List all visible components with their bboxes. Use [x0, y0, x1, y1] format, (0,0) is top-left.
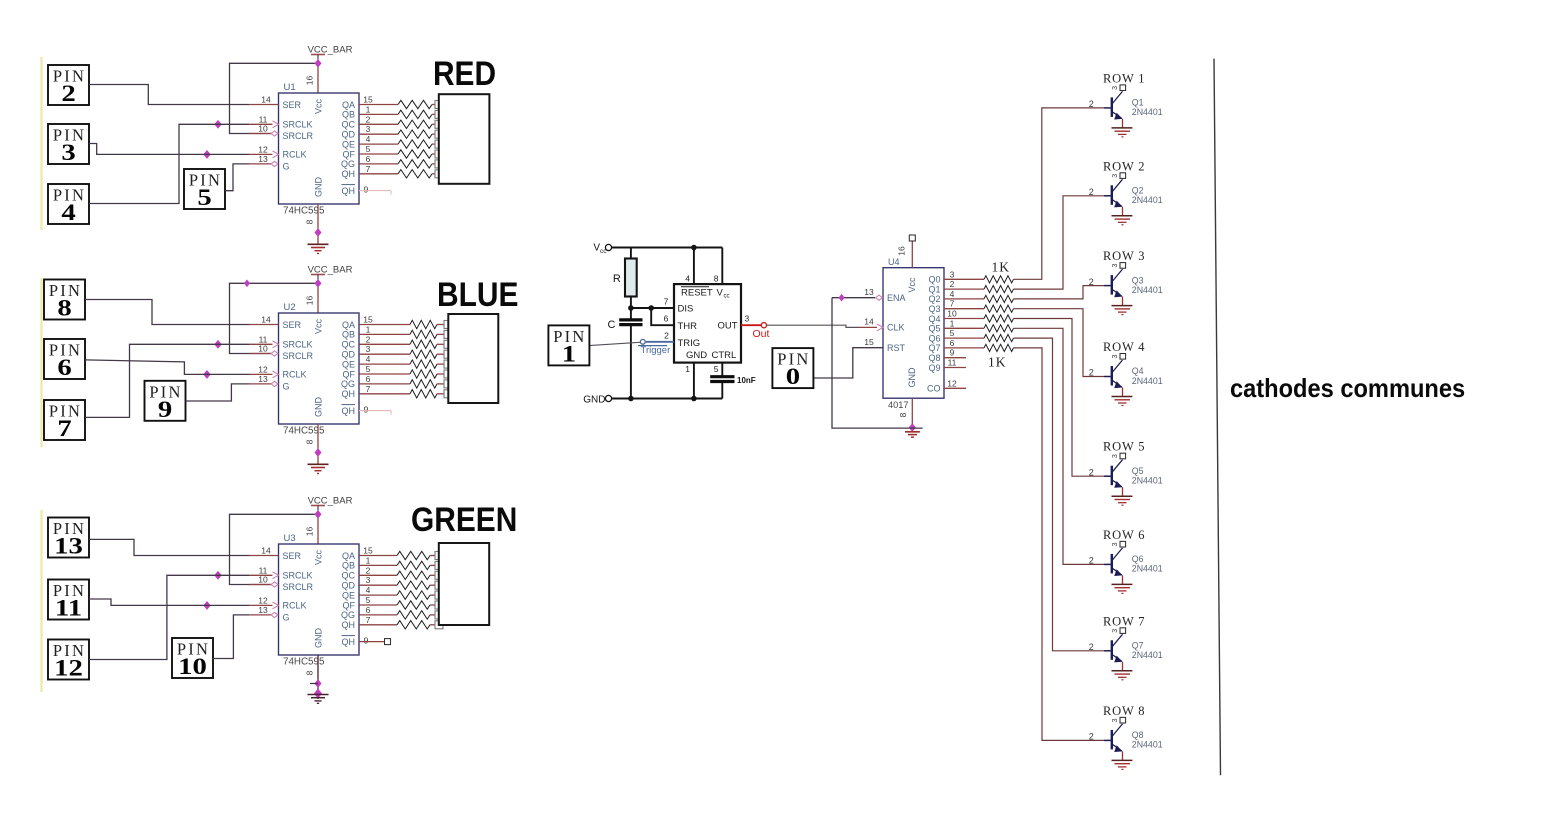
wire U2 QD (pin 3) to resistor	[359, 344, 410, 354]
wire U4 CLK stub pin 14	[858, 317, 883, 331]
wire PIN11 to U3 RCLK	[89, 599, 249, 605]
svg-text:QA: QA	[342, 100, 355, 110]
ground symbol below Q3	[1112, 306, 1133, 315]
resistor 1K on U4 Q4	[984, 315, 1014, 322]
svg-text:RST: RST	[887, 343, 906, 353]
wire U3 QD (pin 3) to resistor	[359, 575, 397, 585]
svg-text:12: 12	[258, 144, 268, 154]
series resistor on U1 QC	[398, 120, 436, 128]
series resistor on U1 QB	[398, 110, 436, 118]
transistor Q4 2N4401	[1089, 357, 1163, 389]
svg-text:3: 3	[1112, 629, 1119, 633]
ground symbol below Q6	[1112, 584, 1133, 593]
svg-text:10: 10	[258, 575, 268, 585]
junction VCC_BAR node	[315, 60, 321, 67]
terminal block PIN2	[48, 65, 89, 106]
ground symbol below Q8	[1112, 760, 1133, 769]
wire U3 QC (pin 2) to resistor	[359, 565, 397, 575]
svg-text:1: 1	[366, 324, 371, 334]
shift register IC U3 74HC595	[279, 533, 360, 668]
wire U4 Q3 (pin 7) to 1K resistor	[944, 299, 984, 309]
collector square terminal of Q4	[1112, 354, 1126, 360]
svg-text:QB: QB	[342, 330, 355, 340]
shift register IC U2 74HC595	[279, 302, 360, 437]
series resistor on U3 QE	[397, 591, 436, 599]
resistor 1K on U4 Q5	[984, 325, 1014, 332]
junction on U2 RCLK net	[204, 371, 210, 379]
svg-text:QH: QH	[342, 620, 356, 630]
connector pad U1 row 6	[435, 150, 443, 158]
svg-text:1: 1	[366, 104, 371, 114]
junction at U3 ground	[310, 680, 321, 687]
svg-text:QC: QC	[342, 571, 356, 581]
svg-text:SER: SER	[283, 551, 302, 561]
connector pad U3 row 3	[435, 571, 443, 579]
resistor 1K on U4 Q7	[984, 344, 1014, 351]
series resistor on U1 QA	[398, 100, 436, 108]
series resistor on U2 QD	[410, 350, 445, 358]
pin 9 QH-bar stub of U3	[359, 636, 391, 646]
svg-text:6: 6	[950, 338, 955, 348]
svg-text:QF: QF	[343, 149, 356, 159]
connector pad U2 row 5	[444, 360, 452, 368]
svg-text:2: 2	[1089, 732, 1094, 742]
svg-text:G: G	[283, 612, 290, 622]
connector pad U3 row 2	[435, 561, 443, 569]
svg-text:5: 5	[950, 328, 955, 338]
faint highlight line left of BLUE pin blocks	[40, 278, 42, 447]
connector pad U3 row 1	[435, 552, 443, 560]
svg-text:10: 10	[258, 344, 268, 354]
wire U1 QG (pin 6) to resistor	[359, 154, 398, 164]
ground symbol below Q1	[1112, 128, 1133, 137]
junction on U2 SRCLK net	[215, 341, 221, 349]
junction VCC_BAR node	[315, 511, 321, 518]
svg-text:GND: GND	[314, 177, 324, 198]
series resistor on U2 QF	[410, 370, 445, 378]
svg-text:Vcc: Vcc	[314, 99, 324, 115]
svg-text:74HC595: 74HC595	[283, 426, 325, 437]
svg-text:2N4401: 2N4401	[1132, 476, 1163, 486]
wire PIN0 to U4 RST pin 15	[813, 337, 883, 378]
svg-text:QD: QD	[342, 350, 356, 360]
wire U3 QE (pin 4) to resistor	[359, 585, 397, 595]
wire U4 Q4 (pin 10) to 1K resistor	[944, 309, 984, 319]
series resistor on U3 QA	[397, 551, 436, 559]
svg-text:ROW 6: ROW 6	[1103, 528, 1145, 542]
connector pad U2 row 6	[444, 370, 452, 378]
svg-text:8: 8	[305, 219, 315, 224]
pin 9 QH-bar stub of U2	[359, 405, 391, 415]
pin 12 RCLK stub of U1	[249, 144, 279, 157]
svg-text:16: 16	[305, 296, 315, 306]
svg-text:5: 5	[197, 185, 211, 211]
svg-text:3: 3	[366, 124, 371, 134]
series resistor on U2 QH	[410, 390, 445, 398]
terminal block PIN9	[145, 381, 186, 422]
svg-text:ROW 5: ROW 5	[1103, 440, 1145, 454]
svg-text:Q4: Q4	[1132, 366, 1144, 376]
svg-text:Q2: Q2	[928, 294, 940, 304]
pin 12 RCLK stub of U3	[249, 595, 279, 608]
wire Q5 emitter to ground	[1122, 487, 1124, 496]
svg-text:ROW 8: ROW 8	[1103, 704, 1145, 718]
wire 555 Vcc pin 8 to Vcc rail	[714, 248, 723, 285]
wire PIN10 to U3 G	[212, 615, 249, 659]
svg-text:OUT: OUT	[717, 321, 737, 332]
wire 1K Q5 to transistor Q6 base	[1014, 328, 1105, 564]
svg-text:cc: cc	[724, 294, 730, 300]
wire junction to DIS (pin 7)	[631, 297, 674, 309]
series resistor on U1 QD	[398, 130, 436, 138]
svg-text:Q7: Q7	[1132, 641, 1144, 651]
node Out (open circle)	[761, 323, 766, 328]
svg-text:GND: GND	[314, 628, 324, 649]
wire Q1 emitter to ground	[1122, 119, 1124, 128]
wire 1K Q4 to transistor Q5 base	[1014, 319, 1105, 477]
svg-text:QH: QH	[342, 406, 356, 416]
connector pad U3 row 5	[435, 591, 443, 599]
svg-text:3: 3	[745, 313, 750, 323]
wire DIS branch to THR (pin 6)	[651, 308, 674, 325]
series resistor on U3 QG	[397, 611, 436, 619]
wire U4 Q8 stub (pin 9)	[944, 348, 966, 358]
resistor 1K on U4 Q0	[984, 276, 1014, 283]
svg-text:RCLK: RCLK	[283, 370, 307, 380]
wire U2 QH (pin 7) to resistor	[359, 384, 410, 394]
connector pad U2 row 2	[444, 330, 452, 338]
svg-text:ROW 2: ROW 2	[1103, 159, 1145, 173]
svg-text:CLK: CLK	[887, 323, 905, 333]
series resistor on U1 QE	[398, 140, 436, 148]
svg-text:cathodes communes: cathodes communes	[1230, 375, 1465, 403]
square terminal above U4 pin 16	[909, 235, 915, 241]
svg-text:2: 2	[1089, 99, 1094, 109]
wire 1K Q3 to transistor Q4 base	[1014, 309, 1105, 377]
series resistor on U3 QF	[397, 601, 436, 609]
svg-text:2: 2	[1089, 277, 1094, 287]
power symbol VCC_BAR (U1 section)	[308, 45, 353, 64]
svg-text:12: 12	[947, 378, 957, 388]
svg-text:3: 3	[1112, 264, 1119, 268]
svg-text:QD: QD	[342, 581, 356, 591]
connector pad U1 row 8	[435, 170, 443, 178]
series resistor on U2 QG	[410, 380, 445, 388]
junction on U3 SRCLK net	[215, 572, 221, 580]
svg-text:QE: QE	[342, 359, 355, 369]
svg-text:9: 9	[950, 348, 955, 358]
wire U3 QB (pin 1) to resistor	[359, 555, 397, 565]
svg-text:GND: GND	[907, 367, 917, 388]
transistor Q8 2N4401	[1089, 720, 1163, 752]
wire U1 QE (pin 4) to resistor	[359, 134, 398, 144]
wire U4 Q9 stub (pin 11)	[944, 358, 966, 368]
svg-text:3: 3	[1112, 174, 1119, 178]
svg-text:5: 5	[714, 364, 719, 374]
svg-text:QB: QB	[342, 561, 355, 571]
wire 1K Q1 to transistor Q2 base	[1014, 196, 1105, 289]
wire U4 Q5 (pin 1) to 1K resistor	[944, 318, 984, 328]
LED connector header (RED column)	[439, 94, 490, 184]
resistor 1K on U4 Q3	[984, 305, 1014, 312]
ground symbol below Q5	[1112, 496, 1133, 505]
series resistor on U1 QH	[398, 170, 436, 178]
svg-text:RESET: RESET	[681, 288, 713, 299]
cathode bus line	[1214, 59, 1221, 776]
svg-text:Q0: Q0	[928, 275, 940, 285]
wire Q4 emitter to ground	[1122, 388, 1124, 397]
svg-text:QH: QH	[342, 637, 356, 647]
svg-text:4: 4	[685, 274, 690, 284]
terminal block PIN8	[44, 280, 85, 321]
wire VCC_BAR to U1 pin 16 (Vcc)	[317, 63, 319, 93]
svg-text:12: 12	[54, 655, 83, 681]
wire U2 QA (pin 15) to resistor	[359, 315, 410, 325]
ground terminal GND (555 section)	[583, 394, 611, 405]
svg-text:1: 1	[950, 318, 955, 328]
svg-text:SRCLK: SRCLK	[283, 120, 313, 130]
svg-text:GREEN: GREEN	[411, 500, 517, 538]
svg-text:RED: RED	[433, 54, 496, 92]
wire U1 QB (pin 1) to resistor	[359, 104, 398, 114]
svg-text:5: 5	[366, 364, 371, 374]
wire U4 pin 16 Vcc	[897, 242, 913, 268]
terminal block PIN1	[548, 325, 589, 366]
wire 1K Q2 to transistor Q3 base	[1014, 286, 1105, 299]
resistor R (timing)	[613, 248, 637, 309]
svg-text:3: 3	[1112, 454, 1119, 458]
node C to ground rail	[628, 396, 634, 402]
wire U3 QA (pin 15) to resistor	[359, 546, 397, 556]
connector pad U1 row 2	[435, 110, 443, 118]
wire U4 Q2 (pin 4) to 1K resistor	[944, 289, 984, 299]
svg-text:6: 6	[366, 154, 371, 164]
collector square terminal of Q8	[1112, 717, 1126, 723]
svg-text:2: 2	[366, 565, 371, 575]
wire U4 ENA pin 13 to ground rail	[832, 287, 906, 428]
svg-text:Q8: Q8	[1132, 730, 1144, 740]
svg-text:2: 2	[950, 279, 955, 289]
pin 11 SRCLK stub of U3	[249, 565, 279, 578]
svg-text:14: 14	[261, 546, 271, 556]
wire 1K Q0 to transistor Q1 base	[1014, 108, 1105, 279]
connector pad U3 row 7	[435, 611, 443, 619]
wire Q3 emitter to ground	[1122, 297, 1124, 306]
series resistor on U1 QG	[398, 160, 436, 168]
svg-text:11: 11	[948, 358, 957, 368]
wire PIN4 to U1 SRCLK	[89, 124, 249, 203]
svg-text:2N4401: 2N4401	[1132, 107, 1163, 117]
terminal block PIN13	[48, 518, 89, 559]
svg-text:8: 8	[898, 412, 908, 417]
svg-text:QB: QB	[342, 110, 355, 120]
svg-text:1K: 1K	[988, 355, 1007, 370]
svg-text:Q8: Q8	[928, 353, 940, 363]
connector pad U2 row 4	[444, 350, 452, 358]
svg-text:10nF: 10nF	[737, 376, 756, 385]
ground symbol below Q7	[1112, 671, 1133, 680]
svg-text:R: R	[613, 273, 621, 285]
LED connector header (GREEN column)	[439, 543, 489, 625]
connector pad U1 row 5	[435, 140, 443, 148]
wire U1 QD (pin 3) to resistor	[359, 124, 398, 134]
faint highlight line left of RED pin blocks	[40, 57, 42, 230]
svg-text:7: 7	[950, 299, 955, 309]
collector square terminal of Q7	[1112, 628, 1126, 634]
wire 1K Q7 to transistor Q8 base	[1014, 348, 1105, 741]
svg-text:CO: CO	[927, 384, 941, 394]
svg-text:6: 6	[366, 374, 371, 384]
svg-text:13: 13	[54, 533, 83, 559]
svg-text:2: 2	[1089, 642, 1094, 652]
svg-text:U2: U2	[284, 302, 296, 313]
svg-text:QF: QF	[343, 600, 356, 610]
svg-text:Vcc: Vcc	[314, 550, 324, 566]
wire VCC_BAR to U2 pin 16 (Vcc)	[317, 283, 319, 313]
collector square terminal of Q5	[1112, 453, 1126, 459]
svg-text:SER: SER	[283, 320, 302, 330]
connector pad U1 row 4	[435, 130, 443, 138]
pin 14 SER stub of U2	[249, 315, 279, 325]
junction tick on ENA net	[839, 295, 844, 301]
svg-text:10: 10	[178, 654, 207, 680]
node Trigger (open circle)	[640, 339, 645, 344]
svg-text:74HC595: 74HC595	[283, 206, 325, 217]
svg-text:8: 8	[305, 670, 315, 675]
series resistor on U1 QF	[398, 150, 436, 158]
svg-text:12: 12	[258, 364, 268, 374]
transistor Q6 2N4401	[1089, 544, 1163, 576]
wire U1 QA (pin 15) to resistor	[359, 95, 398, 105]
terminal block PIN12	[48, 640, 89, 681]
svg-text:QD: QD	[342, 130, 356, 140]
svg-text:10: 10	[947, 309, 957, 319]
svg-text:16: 16	[305, 527, 315, 537]
wire Q6 emitter to ground	[1122, 575, 1124, 584]
wire Q8 emitter to ground	[1122, 751, 1124, 760]
svg-text:SRCLR: SRCLR	[283, 351, 314, 361]
pin 8 GND stub of U2	[305, 424, 319, 464]
terminal block PIN3	[48, 124, 89, 165]
transistor Q7 2N4401	[1089, 631, 1163, 663]
svg-text:BLUE: BLUE	[437, 275, 518, 313]
collector square terminal of Q3	[1112, 263, 1126, 269]
resistor 1K on U4 Q6	[984, 335, 1014, 342]
svg-text:15: 15	[363, 95, 373, 105]
svg-text:GND: GND	[314, 397, 324, 418]
svg-text:Trigger: Trigger	[641, 345, 671, 356]
svg-text:Q2: Q2	[1132, 186, 1144, 196]
pin 13 G stub of U3	[249, 605, 278, 618]
power terminal Vcc (555 section)	[593, 243, 611, 256]
wire U2 QC (pin 2) to resistor	[359, 334, 410, 344]
svg-text:8: 8	[714, 274, 719, 284]
svg-text:7: 7	[366, 615, 371, 625]
connector pad U1 row 3	[435, 120, 443, 128]
svg-text:QH: QH	[342, 389, 356, 399]
junction at U2 ground	[315, 449, 321, 456]
junction on U1 SRCLK net	[215, 121, 221, 129]
wire PIN2 to U1 SER	[89, 85, 249, 105]
power symbol VCC_BAR (U2 section)	[308, 265, 353, 284]
ground symbol below U1	[308, 244, 329, 253]
connector pad U3 row 6	[435, 601, 443, 609]
capacitor 10nF on CTRL pin 5	[710, 363, 756, 399]
svg-text:3: 3	[1112, 718, 1119, 722]
svg-text:QG: QG	[341, 610, 355, 620]
transistor Q1 2N4401	[1089, 88, 1163, 120]
pin 10 SRCLR stub of U1	[249, 124, 278, 137]
terminal block PIN4	[48, 184, 89, 225]
pin 11 SRCLK stub of U1	[249, 114, 279, 127]
svg-text:QA: QA	[342, 320, 355, 330]
svg-text:QF: QF	[343, 369, 356, 379]
series resistor on U3 QD	[397, 581, 436, 589]
connector pad U1 row 1	[435, 101, 443, 109]
wire Q2 emitter to ground	[1122, 207, 1124, 216]
wire PIN8 to U2 SER	[85, 300, 249, 325]
wire 555 GND pin 1 to ground rail	[685, 363, 694, 399]
svg-text:Q9: Q9	[928, 363, 940, 373]
svg-text:4: 4	[950, 289, 955, 299]
svg-text:QE: QE	[342, 590, 355, 600]
ground symbol below Q2	[1112, 216, 1133, 225]
svg-text:2N4401: 2N4401	[1132, 650, 1163, 660]
pin 8 GND stub of U3	[305, 655, 319, 699]
svg-text:Out: Out	[753, 328, 770, 340]
svg-text:U4: U4	[888, 257, 900, 267]
pin 14 SER stub of U1	[249, 95, 279, 105]
svg-text:4: 4	[366, 354, 371, 364]
svg-text:Q6: Q6	[1132, 554, 1144, 564]
svg-text:QA: QA	[342, 551, 355, 561]
faint highlight line left of GREEN pin blocks	[40, 510, 42, 692]
wire U4 Q0 (pin 3) to 1K resistor	[944, 269, 984, 279]
svg-text:SRCLK: SRCLK	[283, 340, 313, 350]
svg-text:2N4401: 2N4401	[1132, 195, 1163, 205]
ground symbol below Q4	[1112, 397, 1133, 406]
transistor Q2 2N4401	[1089, 176, 1163, 208]
svg-text:9: 9	[364, 636, 369, 646]
svg-text:2: 2	[1089, 467, 1094, 477]
wire U1 QC (pin 2) to resistor	[359, 114, 398, 124]
terminal block PIN11	[48, 580, 89, 621]
svg-text:2: 2	[366, 114, 371, 124]
svg-text:2N4401: 2N4401	[1132, 564, 1163, 574]
svg-text:4: 4	[61, 200, 75, 226]
svg-text:8: 8	[305, 439, 315, 444]
svg-text:6: 6	[57, 355, 71, 381]
series resistor on U3 QH	[397, 621, 436, 629]
svg-text:0: 0	[786, 364, 800, 390]
wire U3 QH (pin 7) to resistor	[359, 615, 397, 625]
collector square terminal of Q1	[1112, 85, 1126, 91]
power symbol VCC_BAR (U3 section)	[308, 496, 353, 515]
junction at U4 ground	[909, 424, 915, 431]
svg-text:14: 14	[261, 315, 271, 325]
wire U3 QF (pin 5) to resistor	[359, 595, 397, 605]
connector pad U1 row 7	[435, 160, 443, 168]
svg-text:V: V	[717, 288, 724, 299]
svg-text:Q1: Q1	[928, 284, 940, 294]
svg-text:3: 3	[366, 575, 371, 585]
wire U1 QH (pin 7) to resistor	[359, 164, 398, 174]
wire VCC_BAR to U3 SRCLR (pin 10)	[230, 514, 319, 584]
wire Q7 emitter to ground	[1122, 662, 1124, 671]
svg-text:DIS: DIS	[678, 304, 694, 315]
wire U1 QF (pin 5) to resistor	[359, 144, 398, 154]
node pin1 to ground rail	[691, 396, 697, 402]
